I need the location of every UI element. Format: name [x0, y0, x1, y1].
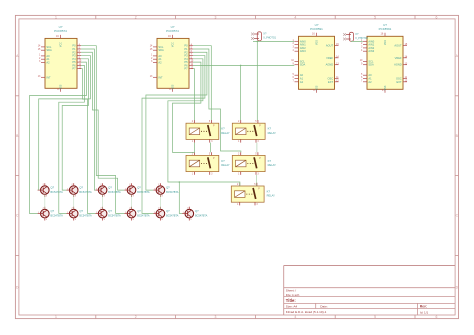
transistor Q11 — [182, 207, 208, 222]
svg-text:2: 2 — [135, 315, 137, 319]
svg-text:BC547BTA: BC547BTA — [51, 191, 64, 194]
svg-text:RELAY: RELAY — [268, 131, 277, 135]
svg-text:5: 5 — [374, 15, 376, 19]
transistor Q2 — [67, 183, 93, 198]
ic U3 PCF8591 — [291, 23, 339, 93]
relay K1 — [186, 120, 230, 143]
svg-text:Date:: Date: — [320, 305, 328, 309]
svg-text:BC547BTA: BC547BTA — [51, 215, 64, 218]
wire U2.P4 to K5 pin2 — [168, 59, 240, 186]
relay K3 — [186, 152, 230, 175]
svg-text:BC547BTA: BC547BTA — [79, 215, 92, 218]
ic U2 PCF8574 — [150, 25, 194, 92]
wire U2.P2 to Q5 base — [146, 52, 207, 190]
svg-text:AIN3: AIN3 — [300, 49, 306, 53]
svg-text:Q?: Q? — [79, 186, 83, 190]
svg-text:SDA: SDA — [368, 63, 374, 67]
svg-text:AOUT: AOUT — [394, 43, 402, 47]
wire U2.P6 to U3.SDA — [193, 64, 294, 66]
ic U1 PCF8574 — [38, 25, 82, 92]
transistor Q6 — [38, 207, 64, 222]
wire K4 pin3 to K5 pin5 — [255, 175, 257, 186]
svg-text:6: 6 — [436, 15, 438, 19]
svg-text:A2: A2 — [46, 61, 50, 65]
svg-text:VDD: VDD — [315, 40, 318, 45]
svg-text:A2: A2 — [300, 80, 304, 84]
wire K2 pin3 to K4 pin5 — [256, 143, 258, 153]
wire Q4 emitter to Q9 collector — [131, 194, 133, 209]
svg-text:BC547BTA: BC547BTA — [79, 191, 92, 194]
wire U2.P3 to Q10 base — [142, 56, 205, 214]
svg-text:VSS: VSS — [315, 85, 318, 90]
svg-text:4: 4 — [294, 15, 296, 19]
wire U1.P2 to Q4 base — [81, 52, 124, 190]
wire U1.P4 to Q2 base — [62, 59, 88, 190]
transistor Q5 — [153, 183, 179, 198]
svg-text:SDA: SDA — [300, 63, 306, 67]
svg-text:PCF8591: PCF8591 — [379, 27, 392, 31]
junction X1 net — [257, 41, 259, 43]
title block — [284, 266, 456, 315]
svg-text:KiCad E.D.A. kicad (5.1.10)-1: KiCad E.D.A. kicad (5.1.10)-1 — [286, 310, 327, 314]
svg-text:AGND: AGND — [326, 63, 334, 67]
transistor Q7 — [67, 207, 93, 222]
svg-text:Q?: Q? — [51, 186, 55, 190]
relay K4 — [232, 152, 276, 175]
wire Q3 emitter to Q8 collector — [102, 194, 104, 209]
svg-text:BC547BTA: BC547BTA — [195, 215, 208, 218]
connector X1 X_PHOTO1 — [251, 31, 277, 40]
svg-text:RELAY: RELAY — [221, 163, 230, 167]
wire X1 to U3.AIN0 — [253, 40, 294, 43]
svg-text:BC547BTA: BC547BTA — [166, 191, 179, 194]
svg-text:VDD: VDD — [384, 40, 387, 45]
svg-text:1: 1 — [55, 15, 57, 19]
svg-text:RELAY: RELAY — [267, 194, 276, 198]
wire Q2 emitter to Q7 collector — [73, 194, 75, 209]
svg-text:5: 5 — [374, 315, 376, 319]
wire Q5 emitter to Q10 collector — [159, 194, 161, 209]
wire Q1 emitter to Q6 collector — [44, 194, 46, 209]
svg-text:SDA: SDA — [46, 48, 52, 52]
wire U2.P7 to K1 pin2 — [193, 69, 194, 121]
svg-text:1: 1 — [55, 315, 57, 319]
svg-text:BC547BTA: BC547BTA — [108, 191, 121, 194]
svg-text:SDA: SDA — [158, 48, 164, 52]
wire K1 pin1 to K3 pin2 — [193, 143, 195, 153]
svg-text:A2: A2 — [158, 61, 162, 65]
svg-text:3: 3 — [215, 315, 217, 319]
svg-text:AGND: AGND — [394, 63, 402, 67]
svg-text:EXT: EXT — [328, 80, 333, 84]
svg-text:K?: K? — [268, 159, 272, 163]
transistor Q3 — [95, 183, 121, 198]
svg-text:VCC: VCC — [171, 42, 174, 47]
svg-text:P7: P7 — [184, 67, 188, 71]
svg-text:K?: K? — [268, 127, 272, 131]
svg-text:VREF: VREF — [326, 56, 333, 60]
svg-text:4: 4 — [294, 315, 296, 319]
relay K5 — [231, 183, 275, 206]
svg-text:EXT: EXT — [397, 80, 402, 84]
svg-text:VCC: VCC — [59, 42, 62, 47]
transistor Q8 — [95, 207, 121, 222]
wire node at K5 branch to Q11 base — [179, 182, 182, 213]
wire U1.P1 to Q3 base — [81, 49, 95, 190]
svg-text:Rev:: Rev: — [420, 305, 427, 309]
svg-text:Q?: Q? — [166, 209, 170, 213]
svg-text:BC547BTA: BC547BTA — [166, 215, 179, 218]
svg-text:K?: K? — [221, 127, 225, 131]
svg-text:AOUT: AOUT — [326, 43, 334, 47]
svg-text:Q?: Q? — [108, 209, 112, 213]
svg-text:PCF8591: PCF8591 — [310, 27, 323, 31]
svg-text:PCF8574: PCF8574 — [54, 29, 67, 33]
svg-text:Q?: Q? — [137, 209, 141, 213]
svg-text:3: 3 — [215, 15, 217, 19]
svg-text:P7: P7 — [72, 67, 76, 71]
wire X2 to U4.AIN0 — [351, 40, 362, 42]
svg-text:INT: INT — [46, 75, 51, 79]
wire U2.P5 to K3 pin2 — [173, 62, 201, 153]
svg-text:X?: X? — [355, 32, 359, 36]
svg-text:PCF8574: PCF8574 — [166, 29, 179, 33]
junction P6 net at K2 feed — [240, 65, 242, 67]
wire U1.P3 to Q1 base — [39, 56, 91, 191]
wire U1.P6 to Q7 base — [59, 65, 85, 213]
svg-text:Sheet: /: Sheet: / — [286, 288, 297, 292]
svg-text:AIN3: AIN3 — [368, 49, 374, 53]
relay K2 — [232, 120, 276, 143]
wire U1.P7 to Q8 base — [81, 69, 95, 214]
svg-text:BC547BTA: BC547BTA — [137, 215, 150, 218]
svg-text:Q?: Q? — [108, 186, 112, 190]
svg-text:X_PHOTO1: X_PHOTO1 — [263, 37, 276, 40]
svg-text:VSS: VSS — [171, 84, 174, 89]
svg-text:6: 6 — [436, 315, 438, 319]
svg-text:A2: A2 — [368, 80, 372, 84]
wire U1.P5 to Q6 base — [29, 62, 86, 213]
svg-text:RELAY: RELAY — [268, 163, 277, 167]
svg-text:VSS: VSS — [384, 85, 387, 90]
wire K1 pin3 to K3 pin5 — [210, 143, 212, 153]
svg-text:VSS: VSS — [59, 84, 62, 89]
svg-text:Q?: Q? — [195, 209, 199, 213]
svg-text:K?: K? — [221, 159, 225, 163]
wire U1.P0 to Q9 base — [81, 46, 124, 214]
svg-text:Q?: Q? — [79, 209, 83, 213]
transistor Q10 — [153, 207, 179, 222]
svg-text:Title:: Title: — [286, 298, 296, 303]
transistor Q9 — [124, 207, 150, 222]
svg-text:BC547BTA: BC547BTA — [108, 215, 121, 218]
svg-text:RELAY: RELAY — [221, 131, 230, 135]
svg-text:Size: A4: Size: A4 — [286, 305, 298, 309]
svg-text:VREF: VREF — [395, 56, 402, 60]
svg-text:K?: K? — [267, 189, 271, 193]
svg-text:2: 2 — [135, 15, 137, 19]
svg-text:Id: 1/1: Id: 1/1 — [420, 310, 429, 314]
svg-text:Q?: Q? — [137, 186, 141, 190]
svg-text:X?: X? — [263, 31, 267, 35]
svg-text:X_PHOTO2: X_PHOTO2 — [355, 37, 368, 40]
wire U2.P0 to K1 pin5 — [193, 46, 211, 121]
connector X2 X_PHOTO2 — [343, 32, 369, 41]
transistor Q1 — [38, 183, 64, 198]
wire P6 net junction to K2 pin2 — [240, 65, 242, 120]
svg-text:Q?: Q? — [51, 209, 55, 213]
svg-text:INT: INT — [158, 75, 163, 79]
ic U4 PCF8591 — [360, 23, 408, 93]
wire X1 net to K2 pin5 — [256, 41, 258, 120]
svg-text:BC547BTA: BC547BTA — [137, 191, 150, 194]
wire U2.P1 to K4 pin2 — [193, 49, 241, 152]
svg-text:File: k.sch: File: k.sch — [286, 293, 300, 297]
junction K5 net at Q11 branch — [179, 181, 181, 183]
svg-text:Q?: Q? — [166, 186, 170, 190]
transistor Q4 — [124, 183, 150, 198]
